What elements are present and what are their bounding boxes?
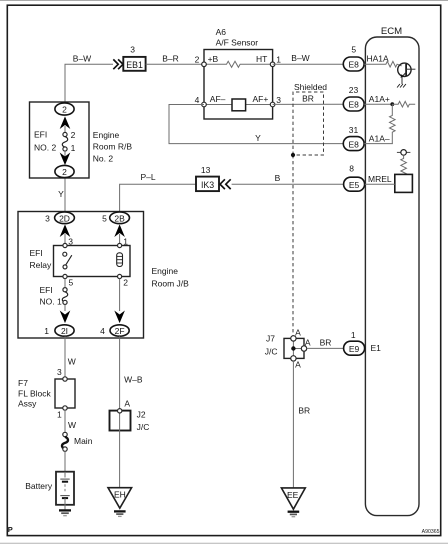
ground below battery bbox=[59, 498, 71, 516]
battery bbox=[25, 472, 74, 505]
svg-text:2: 2 bbox=[123, 278, 128, 288]
svg-text:1: 1 bbox=[44, 326, 49, 336]
svg-text:+B: +B bbox=[208, 54, 219, 64]
svg-text:Engine: Engine bbox=[93, 130, 120, 140]
svg-text:A: A bbox=[295, 328, 301, 338]
chassis ground at transistor emitter bbox=[397, 84, 406, 88]
svg-text:No. 2: No. 2 bbox=[93, 153, 114, 163]
connector E9 pin 1 bbox=[344, 330, 365, 355]
svg-text:B–W: B–W bbox=[291, 53, 309, 63]
svg-text:EB1: EB1 bbox=[126, 60, 143, 70]
svg-text:FL Block: FL Block bbox=[18, 388, 52, 398]
svg-text:5: 5 bbox=[102, 213, 107, 223]
arrow down into 2F bbox=[114, 311, 125, 324]
svg-text:3: 3 bbox=[45, 213, 50, 223]
svg-text:A: A bbox=[305, 338, 311, 348]
svg-text:A: A bbox=[295, 359, 301, 369]
arrow up below 2B bbox=[114, 224, 125, 237]
svg-text:EE: EE bbox=[287, 490, 299, 500]
svg-text:3: 3 bbox=[130, 44, 135, 54]
svg-text:2: 2 bbox=[62, 167, 67, 177]
wire relay pin5 to fuse EFI NO.1 bbox=[64, 279, 66, 288]
heater resistor inside A6 bbox=[204, 61, 273, 67]
svg-text:MREL: MREL bbox=[368, 174, 392, 184]
svg-text:Assy: Assy bbox=[18, 399, 37, 409]
svg-text:J/C: J/C bbox=[137, 422, 150, 432]
pin A of J2 bbox=[118, 399, 131, 413]
pin 3 of EFI relay bbox=[63, 236, 73, 247]
svg-text:P: P bbox=[8, 525, 13, 534]
svg-text:3: 3 bbox=[57, 367, 62, 377]
svg-text:A1A–: A1A– bbox=[369, 134, 390, 144]
svg-text:Y: Y bbox=[255, 133, 261, 143]
wire AF- to AF+ inside A6 bbox=[204, 104, 273, 106]
connector oval 2 (top) of EFI NO.2 bbox=[55, 103, 74, 115]
resistor on HA1A line bbox=[364, 61, 401, 67]
wire Y from EFI NO.2 down to 2D bbox=[58, 178, 65, 212]
svg-text:Shielded: Shielded bbox=[294, 82, 327, 92]
svg-text:1: 1 bbox=[71, 143, 76, 153]
svg-text:AF+: AF+ bbox=[252, 94, 268, 104]
svg-text:Room R/B: Room R/B bbox=[93, 142, 133, 152]
connector IK3 bbox=[196, 177, 219, 192]
wire fuse to arrow above 2I bbox=[64, 305, 66, 312]
sensing cell element inside A6 bbox=[232, 99, 246, 111]
svg-text:E8: E8 bbox=[348, 139, 359, 149]
svg-text:AF–: AF– bbox=[210, 94, 226, 104]
svg-text:P–L: P–L bbox=[140, 172, 155, 182]
svg-text:E9: E9 bbox=[349, 344, 360, 354]
svg-text:J7: J7 bbox=[266, 334, 275, 344]
svg-text:EFI: EFI bbox=[30, 248, 43, 258]
arrow up into oval 2 bbox=[60, 116, 71, 129]
svg-text:B: B bbox=[275, 173, 281, 183]
svg-text:4: 4 bbox=[195, 95, 200, 105]
connector E8 pin 23 bbox=[343, 85, 364, 111]
svg-text:Battery: Battery bbox=[25, 481, 53, 491]
op component A6 A/F sensor body bbox=[204, 50, 273, 120]
F7 FL Block Assy bbox=[18, 378, 75, 409]
wire P-L from IK3 to 2B bbox=[120, 172, 196, 212]
shield box around BR and Y wires bbox=[293, 82, 327, 155]
relay coil bbox=[117, 253, 123, 267]
svg-text:IK3: IK3 bbox=[201, 180, 214, 190]
wire Main to battery bbox=[64, 451, 66, 471]
wire 2D to relay pin 3 bbox=[64, 234, 66, 246]
pin 2 of EFI relay bbox=[118, 274, 129, 287]
svg-text:J2: J2 bbox=[137, 410, 146, 420]
ground point EE bbox=[281, 488, 305, 517]
wire between arrow and fuse bbox=[64, 126, 66, 132]
svg-text:Engine: Engine bbox=[152, 266, 179, 276]
svg-text:J/C: J/C bbox=[265, 347, 278, 357]
svg-text:NO. 2: NO. 2 bbox=[34, 143, 56, 153]
wire relay pin2 down bbox=[119, 279, 121, 311]
resistor right of A1A+ node bbox=[392, 101, 415, 107]
svg-text:HT: HT bbox=[256, 54, 267, 64]
fusible link Main bbox=[62, 432, 93, 451]
svg-text:5: 5 bbox=[69, 278, 74, 288]
pin 1 of F7 bbox=[57, 406, 67, 420]
arrow up below 2D bbox=[60, 224, 71, 237]
svg-text:Y: Y bbox=[58, 189, 64, 199]
pin 3 of A6 bbox=[270, 95, 281, 107]
svg-text:ECM: ECM bbox=[381, 26, 402, 37]
wire Y from AF- to ECM E8-31 bbox=[169, 105, 344, 144]
A/F sensor A6 label bbox=[216, 27, 259, 48]
svg-text:B–W: B–W bbox=[73, 53, 91, 63]
wire A1A+ inside ECM bbox=[364, 103, 392, 105]
svg-text:23: 23 bbox=[349, 85, 359, 95]
svg-text:E8: E8 bbox=[348, 60, 359, 70]
chevron arrows on IK3 wire bbox=[220, 179, 231, 189]
svg-text:13: 13 bbox=[201, 165, 211, 175]
svg-text:EFI: EFI bbox=[34, 129, 47, 139]
connector oval 2D bbox=[45, 212, 74, 224]
resistor between A1A+ and A1A- bbox=[390, 104, 396, 143]
wire fuse to arrow bbox=[64, 151, 66, 157]
wire BR from AF+ to ECM E8-23 bbox=[273, 94, 344, 105]
svg-text:A6: A6 bbox=[216, 27, 227, 37]
pin 3 of F7 bbox=[57, 367, 67, 381]
svg-text:2F: 2F bbox=[115, 326, 125, 336]
connector oval 2B bbox=[102, 212, 129, 224]
arrow down into oval 2 (bottom) bbox=[60, 153, 71, 166]
pin 5 of EFI relay bbox=[63, 274, 74, 287]
ground point EH bbox=[108, 488, 132, 517]
shield drain dashed wire down to J7 bbox=[292, 155, 294, 336]
junction dot inside J7 bbox=[291, 346, 295, 350]
svg-text:Relay: Relay bbox=[30, 260, 52, 270]
wire BR from J7 down to EE ground bbox=[293, 361, 310, 488]
svg-text:W: W bbox=[68, 357, 76, 367]
svg-text:HA1A: HA1A bbox=[367, 54, 390, 64]
connector EB1 bbox=[123, 57, 145, 71]
junction dot on shield drain bbox=[291, 153, 295, 157]
svg-text:5: 5 bbox=[351, 44, 356, 54]
svg-text:3: 3 bbox=[68, 236, 73, 246]
svg-text:Room J/B: Room J/B bbox=[152, 278, 190, 288]
pin A bottom of J7 bbox=[291, 356, 301, 370]
fuse EFI NO.2 bbox=[34, 129, 76, 153]
svg-text:A1A+: A1A+ bbox=[369, 94, 390, 104]
connector E5 pin 8 bbox=[344, 163, 365, 191]
svg-text:2B: 2B bbox=[114, 213, 125, 223]
wire A1A- inside ECM bbox=[364, 143, 393, 145]
fuse EFI NO.1 bbox=[40, 285, 68, 307]
connector E8 pin 5 bbox=[343, 44, 364, 71]
svg-text:1: 1 bbox=[276, 55, 281, 65]
pin 1 of EFI relay bbox=[118, 236, 129, 247]
wire W from F7 to Main bbox=[65, 410, 76, 432]
wire B-R from EB1 to A/F sensor pin 2 bbox=[146, 53, 204, 64]
svg-text:W: W bbox=[68, 420, 76, 430]
pin A top of J7 bbox=[291, 328, 301, 341]
svg-text:F7: F7 bbox=[18, 378, 28, 388]
svg-text:BR: BR bbox=[302, 94, 314, 104]
connector oval 2 (bottom) of EFI NO.2 bbox=[55, 165, 74, 177]
pin A right of J7 bbox=[301, 338, 311, 352]
svg-text:A: A bbox=[124, 399, 130, 409]
MREL relay coil box inside ECM bbox=[395, 174, 413, 192]
svg-text:2: 2 bbox=[195, 55, 200, 65]
svg-text:W–B: W–B bbox=[124, 375, 143, 385]
svg-text:A90365: A90365 bbox=[422, 529, 440, 535]
svg-text:BR: BR bbox=[298, 406, 310, 416]
ECM block bbox=[365, 26, 419, 515]
svg-text:2: 2 bbox=[62, 105, 67, 115]
svg-text:8: 8 bbox=[349, 163, 354, 173]
wire B from IK3 to ECM E5-8 bbox=[232, 173, 344, 184]
wire 2B to relay pin 1 bbox=[119, 234, 121, 246]
junction connector J2 J/C bbox=[110, 410, 150, 432]
wire B-W from HT to ECM E8-5 bbox=[273, 53, 344, 64]
resistor above MREL relay coil bbox=[401, 155, 407, 175]
svg-text:4: 4 bbox=[100, 326, 105, 336]
svg-text:NO. 1: NO. 1 bbox=[40, 296, 62, 306]
arrow down into 2I bbox=[60, 311, 71, 324]
svg-text:31: 31 bbox=[349, 125, 359, 135]
svg-text:E1: E1 bbox=[371, 343, 382, 353]
svg-text:2I: 2I bbox=[61, 326, 68, 336]
svg-text:B–R: B–R bbox=[162, 53, 179, 63]
wire W from 2I to F7 bbox=[65, 336, 76, 377]
chevron arrows on B-W wire bbox=[113, 59, 123, 69]
svg-text:1: 1 bbox=[351, 330, 356, 340]
svg-text:2D: 2D bbox=[59, 213, 70, 223]
wire B-W from EB1 to EFI NO.2 bbox=[65, 53, 113, 103]
wire W-B from 2F to J2 bbox=[120, 336, 143, 410]
junction connector J7 J/C bbox=[265, 334, 304, 359]
svg-text:E5: E5 bbox=[349, 180, 360, 190]
connector oval 2I bbox=[44, 325, 74, 336]
transistor inside ECM bbox=[398, 63, 416, 84]
wire J2 to EH ground bbox=[119, 431, 121, 488]
pin 4 of A6 bbox=[195, 95, 207, 107]
svg-text:3: 3 bbox=[276, 95, 281, 105]
svg-text:E8: E8 bbox=[348, 100, 359, 110]
wire MREL inside ECM bbox=[365, 183, 395, 185]
pin 1 of A6 bbox=[270, 55, 281, 67]
Engine Room J/B block bbox=[18, 212, 189, 339]
svg-text:1: 1 bbox=[57, 409, 62, 419]
svg-text:EH: EH bbox=[114, 490, 126, 500]
svg-text:1: 1 bbox=[123, 236, 128, 246]
Engine Room R/B No.2 block bbox=[30, 102, 133, 178]
connector oval 2F bbox=[100, 325, 129, 336]
svg-text:2: 2 bbox=[71, 130, 76, 140]
pin 2 of A6 bbox=[195, 55, 207, 67]
power supply node circle above MREL bbox=[397, 150, 411, 156]
svg-text:BR: BR bbox=[320, 338, 332, 348]
wire BR from J7 to ECM E9-1 bbox=[307, 338, 344, 349]
relay switch contacts bbox=[63, 252, 72, 269]
connector E8 pin 31 bbox=[343, 125, 364, 150]
junction dot node A1A+ bbox=[390, 102, 394, 106]
svg-text:EFI: EFI bbox=[40, 285, 53, 295]
relay EFI Relay body bbox=[30, 246, 131, 277]
svg-text:A/F Sensor: A/F Sensor bbox=[216, 38, 259, 48]
svg-text:Main: Main bbox=[74, 436, 93, 446]
